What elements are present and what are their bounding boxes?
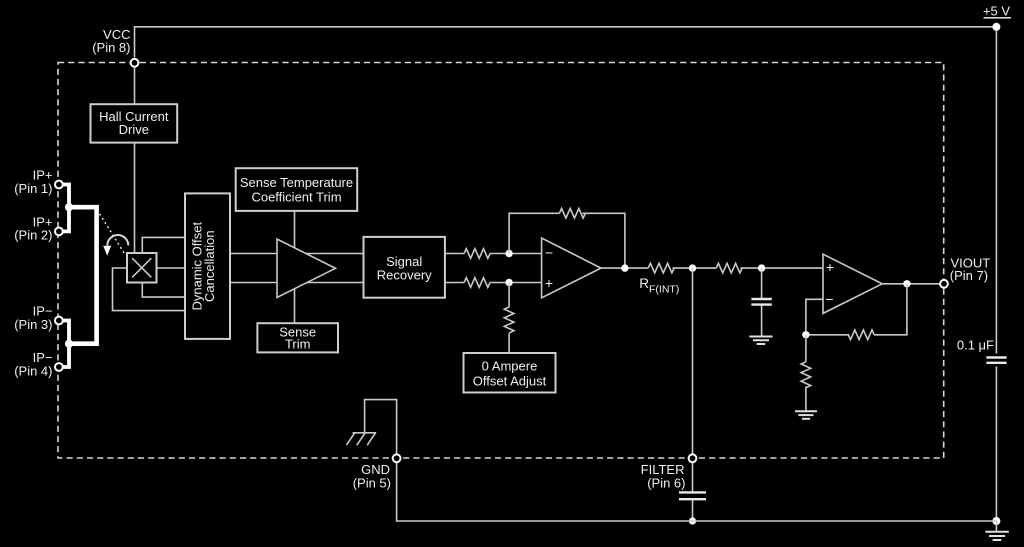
svg-text:0.1 μF: 0.1 μF: [957, 338, 994, 353]
svg-text:(Pin 4): (Pin 4): [14, 363, 52, 378]
svg-text:(Pin 8): (Pin 8): [92, 40, 130, 55]
svg-text:−: −: [825, 291, 833, 307]
svg-text:+: +: [545, 275, 553, 291]
svg-text:(Pin 3): (Pin 3): [14, 317, 52, 332]
svg-text:−: −: [545, 244, 553, 260]
svg-text:F(INT): F(INT): [649, 284, 679, 296]
svg-text:(Pin 1): (Pin 1): [14, 181, 52, 196]
svg-text:Recovery: Recovery: [377, 268, 432, 283]
svg-text:+5 V: +5 V: [983, 4, 1010, 19]
svg-text:Sense Temperature: Sense Temperature: [240, 175, 353, 190]
svg-text:+: +: [826, 259, 834, 275]
svg-text:(Pin 5): (Pin 5): [353, 475, 391, 490]
svg-text:Offset Adjust: Offset Adjust: [473, 374, 547, 389]
svg-text:(Pin 6): (Pin 6): [647, 475, 685, 490]
svg-text:R: R: [639, 276, 649, 291]
svg-text:(Pin 7): (Pin 7): [950, 268, 988, 283]
svg-text:Drive: Drive: [119, 122, 149, 137]
svg-text:Coefficient Trim: Coefficient Trim: [251, 189, 341, 204]
svg-text:(Pin 2): (Pin 2): [14, 228, 52, 243]
svg-text:Trim: Trim: [285, 337, 311, 352]
svg-text:0 Ampere: 0 Ampere: [482, 359, 538, 374]
svg-text:Cancellation: Cancellation: [202, 230, 217, 302]
